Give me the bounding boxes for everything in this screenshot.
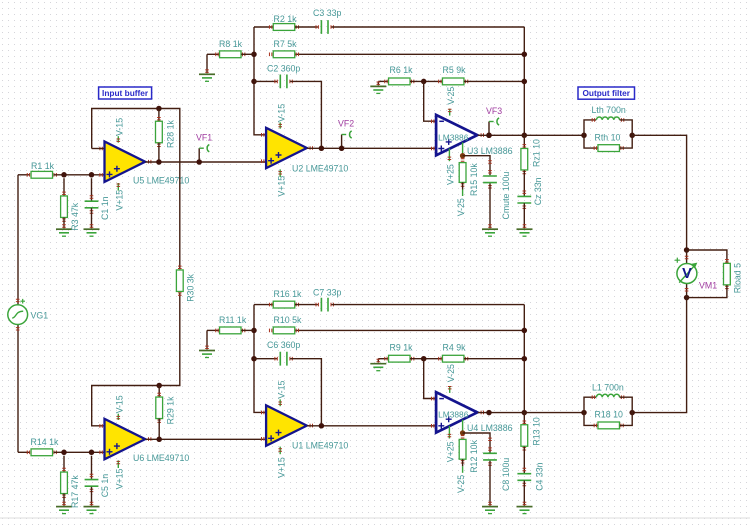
svg-text:U3 LM3886: U3 LM3886 [467, 146, 513, 156]
svg-text:U1 LME49710: U1 LME49710 [292, 441, 348, 451]
svg-text:R16 1k: R16 1k [274, 289, 302, 299]
svg-text:Rz1 10: Rz1 10 [532, 139, 542, 167]
svg-text:R29 1k: R29 1k [166, 396, 176, 424]
svg-text:C6 360p: C6 360p [267, 340, 300, 350]
svg-text:VF1: VF1 [196, 133, 212, 143]
svg-text:LM3886: LM3886 [438, 410, 469, 420]
svg-text:V+15: V+15 [115, 190, 125, 211]
svg-text:V-15: V-15 [115, 118, 125, 136]
svg-text:R11 1k: R11 1k [219, 315, 247, 325]
svg-text:V-15: V-15 [277, 104, 287, 122]
svg-text:R3 47k: R3 47k [70, 202, 80, 230]
svg-text:R9 1k: R9 1k [390, 342, 414, 352]
svg-text:VF3: VF3 [486, 106, 502, 116]
svg-text:R15 10k: R15 10k [469, 163, 479, 196]
svg-text:R7 5k: R7 5k [274, 39, 298, 49]
svg-text:R30 3k: R30 3k [185, 273, 195, 301]
svg-text:Cmute 100u: Cmute 100u [501, 171, 511, 219]
svg-text:U4 LM3886: U4 LM3886 [467, 423, 513, 433]
svg-text:V-15: V-15 [277, 380, 287, 398]
svg-text:V+15: V+15 [277, 176, 287, 197]
svg-text:C5 1n: C5 1n [100, 474, 110, 498]
svg-text:V-25: V-25 [456, 475, 466, 493]
svg-text:R10 5k: R10 5k [274, 315, 302, 325]
svg-text:U6 LME49710: U6 LME49710 [133, 453, 189, 463]
svg-text:U5 LME49710: U5 LME49710 [133, 176, 189, 186]
svg-text:V+15: V+15 [277, 457, 287, 478]
svg-text:R13 10: R13 10 [532, 417, 542, 445]
svg-text:R5 9k: R5 9k [443, 65, 467, 75]
svg-text:C1 1n: C1 1n [100, 196, 110, 220]
svg-text:R2 1k: R2 1k [274, 14, 298, 24]
svg-text:VG1: VG1 [31, 311, 49, 321]
svg-text:Input buffer: Input buffer [102, 88, 149, 98]
svg-text:R6 1k: R6 1k [390, 65, 414, 75]
svg-text:LM3886: LM3886 [438, 132, 469, 142]
svg-text:Rload 5: Rload 5 [733, 263, 743, 293]
svg-text:V-25: V-25 [446, 364, 456, 382]
svg-text:Lth 700n: Lth 700n [592, 105, 626, 115]
svg-text:C4 33n: C4 33n [535, 462, 545, 490]
svg-text:C2 360p: C2 360p [267, 64, 300, 74]
svg-text:C3 33p: C3 33p [313, 8, 341, 18]
svg-text:V+25: V+25 [446, 164, 456, 185]
svg-text:R8 1k: R8 1k [219, 39, 243, 49]
svg-text:VM1: VM1 [699, 281, 717, 291]
svg-text:R14 1k: R14 1k [31, 437, 59, 447]
svg-text:L1 700n: L1 700n [592, 383, 624, 393]
svg-text:V-25: V-25 [456, 198, 466, 216]
svg-text:V+25: V+25 [446, 441, 456, 462]
svg-text:Rth 10: Rth 10 [595, 132, 621, 142]
svg-text:R4 9k: R4 9k [443, 342, 467, 352]
svg-text:V-25: V-25 [446, 87, 456, 105]
svg-text:V+15: V+15 [115, 469, 125, 490]
svg-text:R12 10k: R12 10k [469, 439, 479, 472]
svg-text:Cz 33n: Cz 33n [533, 177, 543, 205]
svg-text:R17 47k: R17 47k [70, 475, 80, 508]
svg-text:C7 33p: C7 33p [313, 287, 341, 297]
svg-text:V-15: V-15 [115, 395, 125, 413]
svg-text:V: V [682, 266, 692, 282]
svg-text:U2 LME49710: U2 LME49710 [292, 163, 348, 173]
svg-text:VF2: VF2 [338, 119, 354, 129]
svg-text:R28 1k: R28 1k [165, 120, 175, 148]
svg-text:R1 1k: R1 1k [31, 161, 55, 171]
svg-text:Output filter: Output filter [582, 88, 630, 98]
svg-text:C8 100u: C8 100u [501, 458, 511, 491]
svg-text:R18 10: R18 10 [595, 410, 623, 420]
